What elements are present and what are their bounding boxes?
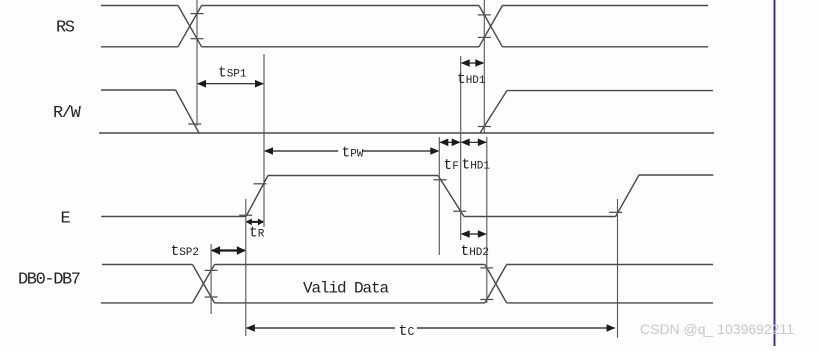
svg-text:tR: tR <box>249 226 265 242</box>
svg-text:tHD1: tHD1 <box>462 158 491 174</box>
svg-text:tPW: tPW <box>342 146 364 162</box>
svg-text:RS: RS <box>56 19 75 38</box>
svg-text:R/W: R/W <box>53 104 82 123</box>
svg-text:tSP1: tSP1 <box>218 66 247 82</box>
svg-text:tHD2: tHD2 <box>461 244 490 260</box>
svg-text:CSDN @q_ 1039692211: CSDN @q_ 1039692211 <box>640 321 794 337</box>
svg-text:E: E <box>61 210 71 229</box>
svg-text:tF: tF <box>444 158 459 174</box>
svg-text:tHD1: tHD1 <box>457 72 486 88</box>
svg-text:tSP2: tSP2 <box>171 244 200 260</box>
svg-text:tC: tC <box>399 323 415 340</box>
svg-text:DB0-DB7: DB0-DB7 <box>18 271 80 290</box>
svg-text:Valid Data: Valid Data <box>303 280 390 298</box>
